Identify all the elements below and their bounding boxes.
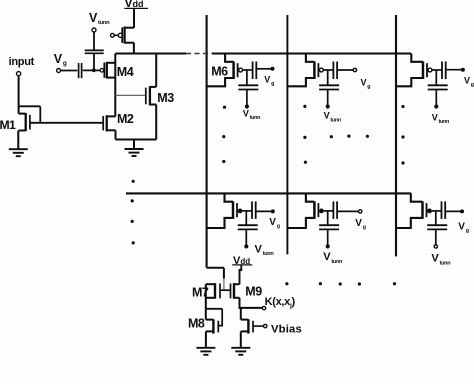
svg-text:M1: M1: [0, 118, 16, 132]
svg-text:M3: M3: [157, 91, 174, 105]
svg-text:M6: M6: [211, 64, 228, 78]
svg-text:V: V: [243, 108, 249, 118]
svg-text:V: V: [323, 251, 331, 263]
svg-text:tunn: tunn: [439, 119, 449, 125]
svg-text:V: V: [361, 78, 367, 88]
svg-text:M7: M7: [192, 285, 209, 299]
svg-text:V: V: [432, 112, 438, 122]
svg-text:g: g: [471, 82, 474, 88]
svg-text:tunn: tunn: [330, 117, 340, 123]
svg-text:g: g: [63, 60, 67, 67]
svg-text:M2: M2: [117, 112, 134, 126]
svg-text:tunn: tunn: [250, 115, 260, 121]
svg-text:Vbias: Vbias: [271, 324, 302, 336]
svg-text:V: V: [54, 52, 63, 66]
svg-text:V: V: [458, 222, 465, 233]
svg-text:V: V: [264, 75, 270, 85]
svg-text:V: V: [324, 111, 330, 121]
svg-text:g: g: [367, 84, 370, 90]
svg-text:tunn: tunn: [98, 20, 110, 26]
svg-text:M8: M8: [188, 317, 205, 331]
svg-text:V: V: [355, 218, 362, 229]
svg-text:V: V: [269, 217, 276, 228]
svg-text:V: V: [431, 253, 439, 265]
svg-text:tunn: tunn: [263, 251, 275, 257]
svg-text:tunn: tunn: [440, 260, 452, 266]
svg-text:g: g: [466, 228, 469, 234]
svg-text:V: V: [464, 76, 470, 86]
svg-text:V: V: [89, 11, 98, 25]
svg-text:M9: M9: [245, 285, 262, 299]
svg-text:M4: M4: [117, 65, 134, 79]
svg-text:g: g: [363, 225, 366, 231]
svg-text:V: V: [255, 243, 263, 255]
svg-text:g: g: [271, 81, 274, 87]
svg-text:input: input: [9, 56, 35, 68]
svg-text:g: g: [277, 224, 280, 230]
svg-text:K(x,xj): K(x,xj): [265, 296, 296, 310]
svg-text:tunn: tunn: [331, 259, 343, 265]
